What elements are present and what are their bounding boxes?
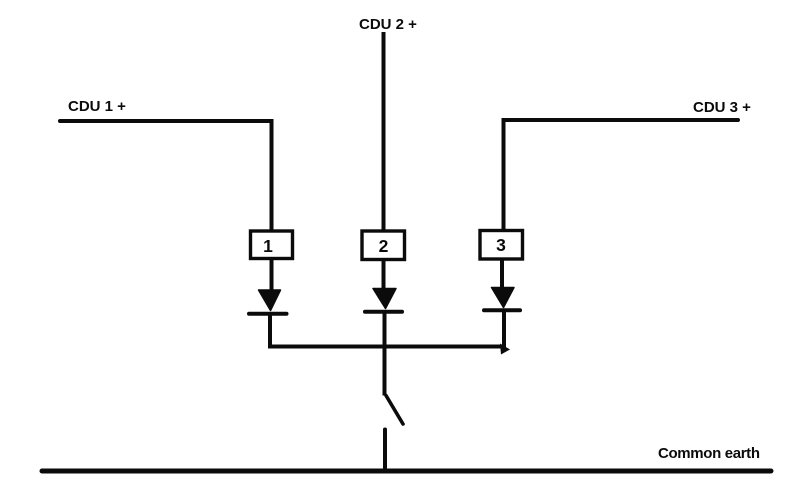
wire CDU3 horizontal and drop to box 3	[504, 120, 739, 230]
wire box 1 to diode D1	[270, 260, 274, 291]
svg-text:3: 3	[496, 235, 506, 255]
wire D1 to bus	[268, 314, 272, 347]
common earth bus line	[42, 469, 771, 474]
svg-text:CDU 1 +: CDU 1 +	[68, 98, 126, 115]
diode D2 cathode bar	[365, 310, 402, 314]
wire box 2 to diode D2	[382, 260, 386, 289]
svg-text:CDU 3 +: CDU 3 +	[693, 99, 751, 116]
switch S1 blade	[386, 396, 403, 425]
diode D3 cathode bar	[484, 308, 520, 312]
wire CDU1 horizontal and drop to box 1	[60, 121, 272, 230]
wire CDU2 vertical to box 2	[382, 32, 386, 230]
svg-text:Common earth: Common earth	[658, 445, 760, 462]
diode D1 cathode bar	[249, 312, 287, 316]
fuse box 1	[251, 231, 293, 259]
diode D3 triangle	[492, 288, 515, 308]
wire D3 to bus	[502, 311, 506, 348]
bus arrowhead	[500, 344, 510, 355]
svg-text:2: 2	[379, 236, 389, 256]
wire D2 through bus to switch	[383, 312, 387, 396]
diode D1 triangle	[259, 290, 281, 311]
diode D2 triangle	[373, 289, 396, 309]
fuse box 2	[362, 231, 405, 260]
svg-text:CDU 2 +: CDU 2 +	[359, 16, 417, 33]
fuse box 3	[480, 231, 523, 260]
wire box 3 to diode D3	[500, 259, 504, 288]
svg-text:1: 1	[263, 236, 273, 256]
wire common bus	[268, 345, 505, 349]
wire switch to earth	[383, 430, 387, 469]
